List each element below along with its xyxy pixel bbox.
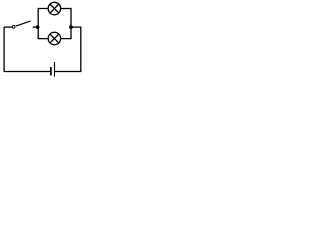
wire: left rail down and bottom wire to battery short plate	[4, 27, 50, 71]
switch S1 pivot circle	[12, 25, 15, 28]
battery B1 long plate	[54, 62, 56, 77]
switch S1 blade (open)	[16, 21, 31, 26]
wire: switch right stub to bus junction	[33, 26, 39, 28]
lamp L2 cross	[50, 34, 59, 43]
wire: left bus vertical with taps to lamp L1 and lamp L2	[38, 9, 48, 39]
lamp L2 circle	[48, 32, 61, 45]
wire: switch feed from left rail to switch pivot	[4, 26, 12, 28]
lamp L1 cross	[50, 4, 59, 13]
lamp L1 circle	[48, 2, 61, 15]
node: junction dot on right column	[69, 25, 73, 29]
node: junction dot at switch/bus	[36, 25, 40, 29]
wire: lamp L1 right, down right column, to lamp L2 right	[61, 9, 71, 39]
wire: branch from right junction to outer right rail down to bottom	[55, 27, 81, 71]
battery B1 short plate	[50, 67, 52, 75]
